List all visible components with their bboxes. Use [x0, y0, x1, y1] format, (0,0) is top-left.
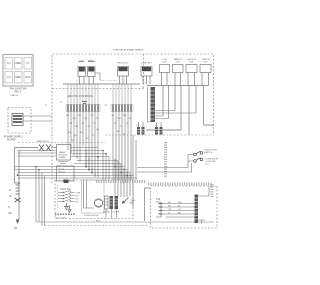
svg-text:OUT: OUT	[176, 62, 181, 64]
svg-text:CONV RLY: CONV RLY	[141, 63, 153, 65]
svg-text:NO: NO	[76, 195, 79, 197]
svg-text:P3: P3	[105, 105, 107, 107]
svg-text:SB: SB	[14, 228, 18, 230]
svg-text:CONV MOTOR: CONV MOTOR	[84, 215, 99, 217]
svg-text:SWITCH: SWITCH	[204, 152, 213, 154]
svg-text:REV 2: REV 2	[15, 91, 23, 94]
svg-text:FAN: FAN	[130, 202, 134, 205]
svg-text:OVEN RELAY BOARD WIRING: OVEN RELAY BOARD WIRING	[113, 49, 144, 52]
svg-text:P8: P8	[137, 125, 139, 127]
svg-text:WIRE NUTS: WIRE NUTS	[37, 141, 49, 143]
svg-text:OUT: OUT	[189, 62, 194, 64]
svg-text:YL: YL	[120, 126, 122, 128]
svg-text:WH: WH	[178, 202, 182, 204]
svg-text:N.O.: N.O.	[206, 164, 211, 166]
svg-text:P2: P2	[60, 102, 62, 104]
svg-text:GR: GR	[8, 213, 12, 215]
svg-text:DLB: DLB	[79, 61, 84, 63]
svg-text:OFF: OFF	[25, 76, 30, 79]
svg-text:YL: YL	[92, 135, 94, 137]
svg-text:YL: YL	[96, 118, 98, 120]
svg-text:LO: LO	[7, 76, 10, 79]
svg-text:COM: COM	[76, 192, 81, 194]
svg-text:BROIL RLY: BROIL RLY	[117, 63, 129, 65]
svg-text:HI: HI	[27, 62, 30, 65]
svg-text:P9: P9	[155, 125, 157, 127]
svg-text:OUT: OUT	[162, 62, 167, 64]
svg-text:MED: MED	[16, 62, 22, 65]
svg-text:BOARD: BOARD	[7, 139, 16, 142]
svg-text:HI SPD: HI SPD	[103, 212, 110, 214]
svg-text:BOARD: BOARD	[59, 156, 67, 159]
svg-text:NO: NO	[76, 201, 79, 203]
svg-text:LINE IN: LINE IN	[10, 95, 18, 97]
svg-text:MED: MED	[16, 76, 22, 79]
svg-text:LATCH: LATCH	[58, 171, 65, 174]
svg-text:P12: P12	[156, 198, 161, 201]
svg-text:P1: P1	[45, 105, 47, 107]
svg-text:P11 LOCK: P11 LOCK	[56, 218, 66, 220]
svg-text:OUT: OUT	[203, 62, 208, 64]
svg-text:LO SPD: LO SPD	[112, 212, 120, 214]
svg-text:LO: LO	[7, 62, 10, 65]
